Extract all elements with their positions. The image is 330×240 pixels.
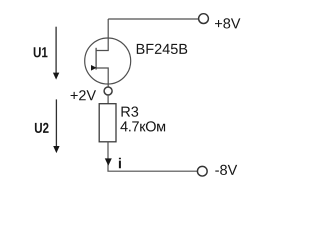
label 4.7kOhm xyxy=(120,121,165,131)
label +8V xyxy=(215,18,240,28)
label R3 xyxy=(122,107,139,117)
wire: R3 to -8V rail xyxy=(108,142,198,171)
wire: node to R3 xyxy=(107,95,109,104)
label BF245B xyxy=(137,44,187,54)
node +2V (source node terminal) xyxy=(104,87,112,95)
label -8V xyxy=(215,165,237,175)
label U1 xyxy=(34,47,48,57)
label +2V xyxy=(71,90,96,100)
current arrow i (arrowhead on wire) xyxy=(105,158,112,165)
wire: +8V rail (top horizontal) xyxy=(108,18,198,20)
label i xyxy=(119,158,121,169)
voltage arrow U2 xyxy=(53,99,59,153)
terminal +8V xyxy=(199,14,209,24)
terminal -8V xyxy=(197,166,207,176)
voltage arrow U1 xyxy=(53,27,59,80)
transistor Q1 BF245B (N-JFET) xyxy=(85,19,131,87)
resistor R3 xyxy=(99,104,116,142)
label U2 xyxy=(35,123,49,133)
